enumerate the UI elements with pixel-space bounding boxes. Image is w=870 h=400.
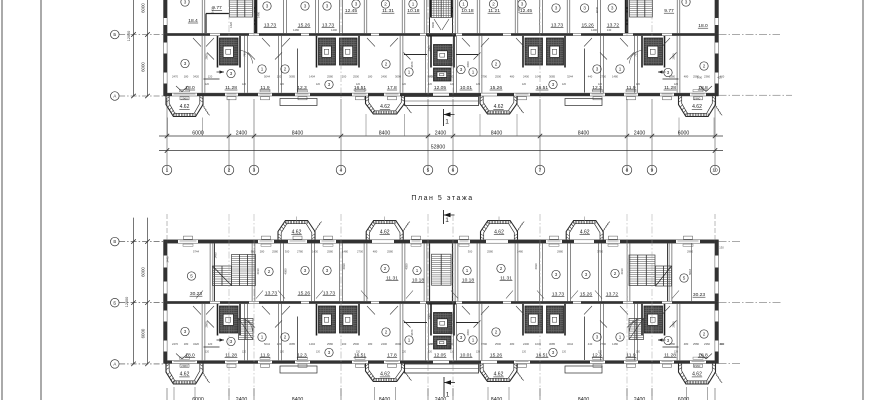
svg-text:3: 3 [326, 268, 329, 273]
svg-text:3085: 3085 [289, 342, 295, 346]
svg-text:120: 120 [356, 83, 361, 86]
svg-text:480: 480 [684, 342, 689, 346]
svg-text:2: 2 [500, 266, 503, 271]
svg-text:120: 120 [208, 342, 213, 346]
svg-text:2: 2 [268, 269, 271, 274]
svg-text:3: 3 [230, 339, 233, 344]
staircase right section [629, 255, 655, 286]
svg-text:А: А [113, 362, 116, 367]
svg-text:1430: 1430 [312, 249, 318, 253]
svg-text:2960: 2960 [694, 364, 701, 368]
svg-text:Б: Б [113, 32, 116, 37]
entrance arrow left core [217, 339, 225, 341]
svg-text:480: 480 [510, 74, 515, 78]
left dim line outer [133, 0, 135, 96]
outer wall right upper [714, 240, 716, 301]
svg-text:180: 180 [184, 342, 189, 346]
svg-text:120: 120 [316, 83, 321, 86]
svg-text:3: 3 [266, 4, 269, 9]
entrance arrow right core [658, 339, 666, 341]
section mark 1 below bottom plan [443, 377, 445, 397]
svg-text:480: 480 [684, 74, 689, 78]
svg-text:2470: 2470 [172, 342, 178, 346]
door swing strokes lower zone [248, 321, 255, 328]
svg-text:3: 3 [596, 335, 599, 340]
dimension row line 1 [159, 135, 723, 137]
svg-text:7: 7 [539, 168, 542, 174]
svg-text:1: 1 [412, 2, 415, 7]
svg-text:3: 3 [355, 2, 358, 7]
svg-text:120: 120 [522, 351, 527, 354]
svg-text:2700: 2700 [600, 342, 606, 346]
svg-text:400: 400 [717, 76, 722, 80]
svg-text:2580: 2580 [669, 74, 675, 78]
bay window bottom far-left [166, 96, 203, 117]
svg-text:1: 1 [619, 335, 622, 340]
svg-text:2: 2 [703, 64, 706, 69]
axis lines through top plan [340, 0, 342, 98]
svg-text:9674: 9674 [410, 329, 414, 335]
staircase left section [232, 255, 256, 286]
svg-text:5618: 5618 [688, 269, 692, 275]
svg-text:1420: 1420 [211, 7, 215, 13]
svg-text:6000: 6000 [140, 3, 145, 13]
elevator shafts mid-left pair [319, 38, 336, 65]
svg-text:1: 1 [408, 338, 411, 343]
svg-text:4030: 4030 [342, 263, 346, 269]
balcony slab centre bottom [405, 97, 479, 106]
svg-text:8400: 8400 [578, 130, 590, 136]
svg-text:3: 3 [552, 82, 555, 87]
svg-text:1420: 1420 [229, 22, 233, 28]
elevator shaft centre [434, 45, 453, 66]
svg-text:4: 4 [340, 168, 343, 174]
svg-text:2580: 2580 [487, 249, 493, 253]
svg-text:2: 2 [284, 335, 287, 340]
balcony slab left section [280, 99, 317, 106]
svg-text:2400: 2400 [435, 130, 447, 136]
balcony slab centre bottom [405, 364, 479, 373]
svg-text:2960: 2960 [694, 97, 701, 101]
svg-text:3: 3 [521, 2, 524, 7]
axis circle А [111, 360, 120, 369]
svg-text:200: 200 [342, 342, 347, 346]
svg-text:1480: 1480 [342, 249, 348, 253]
wall axis B horizontal [164, 32, 719, 34]
elevator shafts mid-left pair [319, 306, 336, 333]
staircase right small flight [656, 266, 672, 286]
svg-text:2580: 2580 [327, 249, 333, 253]
axis circle В [111, 237, 120, 246]
svg-text:3: 3 [184, 329, 187, 334]
outer wall left upper [163, 240, 165, 301]
svg-text:120: 120 [242, 351, 247, 354]
svg-text:3446: 3446 [166, 256, 170, 262]
service stair left of right core [629, 319, 644, 340]
svg-text:1: 1 [462, 2, 465, 7]
svg-text:1404: 1404 [309, 74, 315, 78]
svg-text:9674: 9674 [410, 61, 414, 67]
bay window bottom centre-left [366, 96, 405, 114]
svg-text:1: 1 [466, 268, 469, 273]
bay window bottom far-right [679, 96, 716, 117]
svg-text:5: 5 [190, 274, 193, 279]
room label centre bathroom [457, 333, 465, 341]
svg-text:1: 1 [408, 70, 411, 75]
svg-text:2: 2 [492, 2, 495, 7]
axis A line extension right of bottom plan [719, 363, 743, 365]
svg-text:120: 120 [356, 351, 361, 354]
svg-text:3: 3 [253, 168, 256, 174]
svg-text:3: 3 [611, 6, 614, 11]
svg-text:8: 8 [626, 168, 629, 174]
svg-text:1490: 1490 [331, 28, 337, 32]
elevator shaft right section [644, 306, 663, 333]
room label centre bathroom [457, 65, 465, 73]
elevator shaft right section [644, 38, 663, 65]
elevator shafts mid-right pair [525, 306, 543, 333]
balcony slab left section [280, 366, 317, 373]
stair enclosure walls [214, 244, 216, 302]
svg-text:2: 2 [385, 62, 388, 67]
svg-text:180: 180 [184, 74, 189, 78]
svg-text:2500: 2500 [353, 74, 359, 78]
svg-text:3244: 3244 [567, 74, 573, 78]
svg-text:120: 120 [476, 83, 481, 86]
svg-text:2500: 2500 [353, 342, 359, 346]
left dim line outer [133, 218, 135, 364]
door swing strokes near wall B [193, 38, 201, 47]
svg-text:120: 120 [280, 83, 285, 86]
svg-text:120: 120 [450, 83, 455, 86]
staircase top-left cut [230, 0, 253, 17]
svg-text:8400: 8400 [491, 130, 503, 136]
axis circle Б [111, 298, 120, 307]
svg-text:1400: 1400 [447, 342, 453, 346]
svg-text:3: 3 [552, 350, 555, 355]
svg-text:В: В [113, 239, 116, 244]
svg-text:480: 480 [510, 342, 515, 346]
svg-text:2400: 2400 [381, 74, 387, 78]
svg-text:2400: 2400 [381, 342, 387, 346]
svg-text:120: 120 [674, 83, 679, 86]
svg-text:2580: 2580 [669, 342, 675, 346]
axis lines through bottom plan [340, 214, 342, 398]
svg-text:200: 200 [342, 74, 347, 78]
corridor stub walls near cores [204, 78, 220, 80]
svg-text:3: 3 [326, 4, 329, 9]
svg-text:1: 1 [472, 70, 475, 75]
svg-text:12000: 12000 [127, 31, 131, 42]
svg-text:4080: 4080 [284, 268, 288, 274]
bay window bottom centre-left [366, 364, 405, 382]
svg-text:1400: 1400 [447, 74, 453, 78]
outer wall left lower [163, 33, 165, 96]
svg-text:120: 120 [636, 351, 641, 354]
svg-text:4190: 4190 [256, 268, 260, 274]
svg-text:120: 120 [277, 342, 282, 346]
svg-text:4190: 4190 [620, 268, 624, 274]
svg-text:2580: 2580 [327, 74, 333, 78]
svg-text:2: 2 [228, 168, 231, 174]
svg-text:3: 3 [583, 6, 586, 11]
radiator marks above wall A windows [180, 90, 190, 92]
svg-text:1: 1 [619, 67, 622, 72]
svg-text:1480: 1480 [517, 249, 523, 253]
svg-text:120: 120 [428, 351, 433, 354]
left dim line inner [147, 0, 149, 96]
svg-text:480: 480 [373, 249, 378, 253]
svg-text:120: 120 [562, 351, 567, 354]
room labels lower left [181, 327, 189, 335]
door swing strokes near wall B [193, 306, 201, 315]
window sill marks wall A [174, 93, 196, 95]
outer wall right lower [714, 301, 716, 363]
svg-text:6000: 6000 [678, 130, 690, 136]
svg-text:120: 120 [205, 83, 210, 86]
staircase top-centre cut [432, 0, 452, 18]
svg-text:8400: 8400 [379, 130, 391, 136]
svg-text:1045: 1045 [535, 74, 541, 78]
svg-text:3244: 3244 [567, 342, 573, 346]
balcony slab right section [565, 366, 602, 373]
svg-text:1: 1 [261, 335, 264, 340]
svg-text:3790: 3790 [481, 74, 487, 78]
svg-text:300: 300 [285, 249, 290, 253]
svg-text:1480: 1480 [612, 342, 618, 346]
svg-text:2: 2 [614, 271, 617, 276]
corridor stub walls near cores [204, 346, 220, 348]
svg-text:120: 120 [598, 351, 603, 354]
svg-text:1: 1 [445, 217, 449, 224]
svg-text:3090: 3090 [395, 74, 401, 78]
svg-text:3: 3 [460, 67, 463, 72]
svg-text:9: 9 [651, 168, 654, 174]
svg-text:2360: 2360 [704, 74, 710, 78]
svg-text:3790: 3790 [597, 249, 603, 253]
outer wall right lower [714, 33, 716, 96]
svg-text:120: 120 [476, 351, 481, 354]
bay window bottom far-right [679, 364, 716, 385]
sheet frame right border [862, 0, 864, 400]
radiator marks below wall V windows [183, 244, 193, 246]
svg-text:4050: 4050 [466, 61, 470, 67]
outer wall left lower [163, 301, 165, 363]
svg-text:300: 300 [468, 249, 473, 253]
bay extension lines bottom [173, 387, 175, 400]
svg-text:6000: 6000 [140, 328, 145, 338]
svg-text:2980: 2980 [687, 249, 693, 253]
svg-text:2580: 2580 [693, 342, 699, 346]
svg-text:3090: 3090 [395, 342, 401, 346]
elevator shaft centre [434, 313, 453, 334]
staircase top-right cut [630, 0, 653, 17]
svg-text:120: 120 [522, 83, 527, 86]
svg-text:120: 120 [280, 351, 285, 354]
bay centre marks above bottom plan [296, 217, 298, 223]
svg-text:2600: 2600 [205, 321, 209, 327]
svg-text:2: 2 [284, 67, 287, 72]
svg-text:1480: 1480 [612, 74, 618, 78]
left dim line inner [147, 218, 149, 364]
svg-text:9.90: 9.90 [697, 76, 703, 80]
svg-text:1480: 1480 [293, 28, 299, 32]
svg-text:1: 1 [166, 168, 169, 174]
wall axis V exterior with windows [164, 239, 719, 241]
svg-text:5044: 5044 [264, 342, 270, 346]
svg-text:2400: 2400 [236, 130, 248, 136]
svg-text:430: 430 [719, 342, 724, 346]
svg-text:3: 3 [328, 82, 331, 87]
svg-text:12000: 12000 [125, 297, 129, 308]
svg-text:130: 130 [719, 246, 724, 250]
svg-text:10: 10 [712, 168, 718, 174]
svg-text:120: 120 [450, 351, 455, 354]
svg-text:120: 120 [402, 351, 407, 354]
svg-text:2470: 2470 [172, 74, 178, 78]
svg-text:3: 3 [184, 61, 187, 66]
bay window bottom centre-right [480, 364, 517, 382]
svg-text:План 5 этажа: План 5 этажа [411, 195, 473, 202]
svg-text:2: 2 [495, 62, 498, 67]
bay window bottom far-left [166, 364, 203, 385]
wall axis B horizontal [164, 300, 719, 302]
sheet frame left inner line [1, 0, 3, 400]
svg-text:8400: 8400 [292, 130, 304, 136]
svg-text:120: 120 [205, 351, 210, 354]
top plan outer walls upper stubs [163, 0, 165, 33]
svg-text:5: 5 [427, 168, 430, 174]
svg-text:4030: 4030 [595, 7, 599, 13]
interior partitions lower zone [201, 304, 203, 360]
small room wall 9.77 [206, 13, 229, 15]
extension lines below bottom plan [166, 388, 168, 400]
svg-text:120: 120 [636, 83, 641, 86]
room labels lower right [469, 68, 477, 76]
svg-text:3: 3 [685, 0, 688, 5]
svg-text:3: 3 [596, 67, 599, 72]
axis stubs above bottom plan corners [166, 214, 168, 240]
svg-text:280: 280 [260, 249, 265, 253]
svg-text:2700: 2700 [600, 74, 606, 78]
svg-text:180: 180 [368, 342, 373, 346]
svg-text:3: 3 [230, 71, 233, 76]
bay window bottom centre-right [480, 96, 517, 114]
svg-text:2500: 2500 [495, 74, 501, 78]
svg-text:120: 120 [428, 83, 433, 86]
svg-text:3085: 3085 [549, 74, 555, 78]
corridor walls centre [427, 35, 456, 37]
svg-text:3420: 3420 [193, 342, 199, 346]
section mark 1 below top plan [443, 109, 445, 126]
svg-text:2980: 2980 [557, 249, 563, 253]
svg-text:2780: 2780 [297, 249, 303, 253]
elevator shaft left section [220, 306, 239, 333]
svg-text:120: 120 [208, 74, 213, 78]
svg-text:3085: 3085 [289, 74, 295, 78]
svg-text:3: 3 [555, 272, 558, 277]
svg-text:52800: 52800 [431, 144, 446, 150]
overall dimension row line 52800 [159, 150, 723, 152]
axis V line extension right of bottom plan [719, 241, 743, 243]
svg-text:2400: 2400 [634, 130, 646, 136]
window sill marks wall A [174, 361, 196, 363]
svg-text:6: 6 [452, 168, 455, 174]
door arc right of left core [241, 51, 253, 64]
svg-text:1: 1 [261, 67, 264, 72]
svg-text:2: 2 [384, 2, 387, 7]
svg-text:1480: 1480 [517, 7, 521, 13]
svg-text:2: 2 [703, 332, 706, 337]
svg-text:3: 3 [184, 0, 187, 5]
svg-text:2: 2 [384, 266, 387, 271]
svg-text:3: 3 [304, 268, 307, 273]
svg-text:120: 120 [598, 83, 603, 86]
svg-text:1490: 1490 [257, 12, 261, 18]
bay edge extension lines top plan [365, 114, 367, 136]
svg-text:3420: 3420 [193, 74, 199, 78]
bay window top centre-right-1 [481, 221, 518, 240]
svg-text:2700: 2700 [357, 249, 363, 253]
svg-text:2580: 2580 [327, 342, 333, 346]
svg-text:440: 440 [588, 74, 593, 78]
svg-text:120: 120 [562, 83, 567, 86]
svg-text:6000: 6000 [192, 130, 204, 136]
svg-text:1404: 1404 [309, 342, 315, 346]
wall axis A exterior with windows [164, 92, 719, 94]
svg-text:3: 3 [328, 350, 331, 355]
svg-text:2500: 2500 [495, 342, 501, 346]
svg-text:2: 2 [495, 330, 498, 335]
axis circle Б [111, 30, 120, 39]
staircase left small flight [213, 266, 232, 286]
wall axis A exterior with windows [164, 360, 719, 362]
svg-text:3: 3 [555, 6, 558, 11]
elevator shaft left section [220, 38, 239, 65]
door swings below centre stair [434, 19, 441, 30]
svg-text:2960: 2960 [181, 97, 188, 101]
svg-text:2960: 2960 [181, 364, 188, 368]
svg-text:1490: 1490 [591, 28, 597, 32]
entrance arrow right core [658, 71, 666, 73]
svg-text:4900: 4900 [431, 22, 435, 28]
svg-text:2580: 2580 [387, 249, 393, 253]
room labels upper row [187, 272, 195, 280]
svg-text:6000: 6000 [140, 267, 145, 277]
door arc left of right core [629, 51, 641, 64]
svg-text:1: 1 [445, 119, 449, 126]
svg-text:3085: 3085 [549, 342, 555, 346]
svg-text:440: 440 [428, 342, 433, 346]
bay window top centre-left-1 [278, 221, 315, 240]
svg-text:5: 5 [683, 276, 686, 281]
staircase centre [432, 254, 452, 285]
svg-text:440: 440 [428, 74, 433, 78]
svg-text:4050: 4050 [405, 263, 409, 269]
svg-text:120: 120 [316, 351, 321, 354]
svg-text:3: 3 [304, 4, 307, 9]
svg-text:1: 1 [446, 392, 450, 399]
corridor walls centre [427, 303, 456, 305]
svg-text:440: 440 [588, 342, 593, 346]
elevator shafts mid-right pair [525, 38, 543, 65]
svg-text:3: 3 [585, 272, 588, 277]
svg-text:2400: 2400 [523, 74, 529, 78]
top plan cut partitions upper zone [201, 0, 203, 33]
svg-text:5744: 5744 [193, 249, 199, 253]
interior partitions lower zone [201, 36, 203, 93]
svg-text:2400: 2400 [523, 342, 529, 346]
